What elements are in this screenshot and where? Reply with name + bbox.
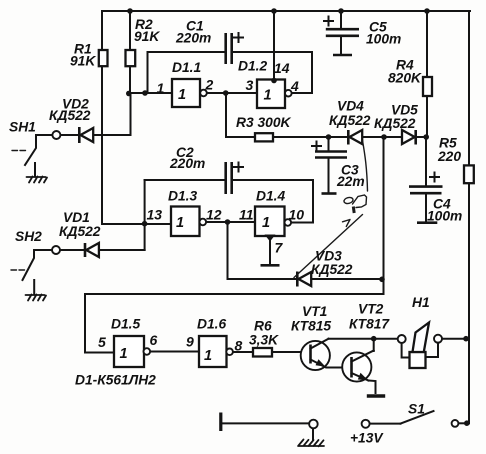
svg-text:91K: 91K: [70, 54, 96, 69]
wire C1 right to D1.2 pin 4: [232, 52, 312, 93]
wire D1.4 pin 7 stem: [269, 238, 271, 265]
wire node VD4/VD5 down to VD3 and to D1.5 input: [85, 137, 384, 353]
svg-text:5: 5: [98, 334, 106, 350]
svg-text:12: 12: [206, 207, 222, 223]
wire H1 right terminal to rail: [442, 338, 469, 340]
terminal +13V: [362, 420, 370, 428]
svg-text:820K: 820K: [388, 71, 422, 86]
svg-text:SH2: SH2: [15, 229, 42, 244]
svg-text:КД522: КД522: [311, 262, 353, 277]
svg-text:1: 1: [120, 346, 128, 362]
wire VT2 collector riser: [373, 339, 375, 351]
svg-text:D1.3: D1.3: [168, 189, 197, 204]
resistor R3: [255, 133, 273, 141]
svg-text:VT2: VT2: [358, 302, 384, 317]
wire +13V to S1 lever: [370, 423, 401, 425]
wire D1.5 out to D1.6 in: [150, 351, 199, 353]
svg-text:VD1: VD1: [63, 210, 90, 225]
wire R6 to VT1 base: [272, 351, 311, 353]
svg-text:220: 220: [437, 149, 461, 164]
wire C1 feedback loop left riser: [148, 52, 226, 93]
capacitor C2: [226, 162, 243, 194]
ground at VT2 emitter: [367, 394, 385, 397]
wire S1 contact to rail: [458, 422, 469, 424]
svg-text:100m: 100m: [427, 209, 462, 224]
wire SH1 lever arm: [25, 135, 53, 165]
svg-text:3,3K: 3,3K: [249, 333, 279, 348]
wire top supply rail: [102, 10, 470, 12]
svg-text:8: 8: [235, 338, 243, 354]
svg-text:22m: 22m: [336, 174, 365, 189]
svg-text:КД522: КД522: [329, 113, 371, 128]
wire VD1 to riser: [99, 249, 145, 251]
gate D1.5: [114, 336, 150, 367]
svg-text:13: 13: [147, 207, 163, 223]
svg-text:D1.4: D1.4: [256, 189, 285, 204]
wire SH1 contact to VD2: [61, 134, 80, 136]
svg-text:7: 7: [275, 240, 284, 256]
gate D1.6: [199, 336, 233, 367]
wire 0V common line: [221, 422, 309, 424]
svg-text:100m: 100m: [366, 32, 401, 47]
buzzer H1: [398, 323, 442, 369]
svg-text:1: 1: [264, 88, 272, 104]
svg-text:1: 1: [178, 87, 186, 103]
gate D1.3: [171, 207, 206, 237]
wire D1.3 out to D1.4 pin 11: [206, 221, 255, 223]
svg-text:D1-К561ЛН2: D1-К561ЛН2: [75, 373, 156, 388]
wire D1.3 output down to VD3: [228, 222, 298, 279]
switch SH2 dashes: [11, 269, 25, 271]
svg-text:3: 3: [246, 77, 254, 93]
annotation pencil arrow to VD3: [294, 215, 363, 278]
svg-text:D1.5: D1.5: [111, 317, 140, 332]
wire pin 1 input of D1.1: [128, 92, 172, 94]
wire C2 left plate lead: [145, 179, 225, 181]
svg-text:220m: 220m: [169, 156, 205, 171]
svg-text:10: 10: [289, 207, 305, 223]
svg-text:R3 300K: R3 300K: [236, 115, 291, 130]
ground at SH2: [26, 280, 47, 301]
wire D1.6 out to R6: [233, 351, 254, 353]
svg-text:D1.2: D1.2: [238, 59, 267, 74]
wire C2 loop riser and VD1 line: [144, 180, 146, 250]
wire R4 column: [426, 11, 428, 137]
diode VD4 КД522: [348, 130, 362, 145]
gate D1.2: [257, 80, 292, 109]
svg-text:11: 11: [239, 207, 254, 223]
wire C4 stem: [425, 137, 427, 185]
switch S1 contact circle: [452, 420, 459, 427]
wire VD3 to drop node: [312, 278, 384, 280]
resistor R4: [423, 77, 432, 96]
wire R2 column: [129, 11, 131, 94]
svg-text:КД522: КД522: [59, 224, 101, 239]
svg-text:91K: 91K: [134, 29, 160, 44]
junction dots: [127, 8, 133, 14]
wire D1.2 pin 14 to rail: [273, 11, 275, 79]
gate D1.1: [172, 79, 207, 107]
resistor R6: [253, 348, 272, 357]
svg-text:КД522: КД522: [374, 116, 416, 131]
switch SH1 contact circle: [52, 131, 60, 139]
svg-text:6: 6: [150, 332, 158, 348]
ground at 0V terminal: [298, 429, 324, 447]
wire VD2 to pin1 node riser: [93, 94, 131, 135]
svg-text:VT1: VT1: [302, 304, 327, 319]
svg-text:9: 9: [186, 334, 194, 350]
diode VD3 КД522: [297, 272, 311, 287]
capacitor C1: [226, 33, 243, 64]
wire D1.1 out to D1.2 pin 3: [207, 92, 257, 94]
svg-text:КТ815: КТ815: [291, 319, 331, 334]
capacitor C3: [312, 137, 347, 194]
svg-text:SH1: SH1: [9, 120, 36, 135]
resistor R5: [464, 165, 474, 183]
svg-text:VD4: VD4: [337, 99, 364, 114]
gate D1.4 pin 7 triangle: [265, 235, 276, 242]
transistor VT2 КТ817: [342, 351, 374, 382]
wire S1 lever arm: [401, 411, 434, 424]
resistor R1: [99, 50, 108, 66]
svg-text:14: 14: [274, 60, 290, 76]
svg-text:КТ817: КТ817: [349, 317, 390, 332]
annotation pencil mark (question squiggle): [343, 141, 367, 214]
svg-text:D1.6: D1.6: [197, 317, 226, 332]
svg-text:КД522: КД522: [49, 108, 91, 123]
svg-text:2: 2: [205, 77, 214, 93]
ground at SH1: [27, 163, 48, 183]
wire right rail (to S1): [468, 11, 470, 423]
wire C2 right to D1.4 pin 10: [232, 180, 313, 223]
svg-text:4: 4: [290, 78, 299, 94]
svg-text:1: 1: [204, 348, 212, 364]
wire VT2 emitter to ground: [369, 381, 376, 394]
diode VD1 КД522: [85, 243, 99, 257]
wire VT1/VT2 collectors to H1: [329, 338, 399, 340]
0V terminal circle: [309, 420, 318, 429]
diode VD5 КД522: [402, 130, 416, 145]
svg-text:1: 1: [157, 80, 165, 96]
svg-text:220m: 220m: [175, 31, 211, 46]
wire VD5 to R4/C4 node: [417, 136, 427, 138]
wire R3 branch from pin2/3 node: [226, 93, 255, 137]
svg-text:H1: H1: [412, 295, 430, 310]
wire VD4 to VD5 node: [362, 136, 404, 138]
wire SH2 contact to VD1: [60, 249, 84, 251]
svg-text:+13V: +13V: [350, 431, 384, 446]
capacitor C4: [409, 173, 443, 223]
wire SH2 lever arm: [23, 250, 53, 280]
capacitor C5: [324, 11, 359, 55]
resistor R2: [126, 50, 136, 66]
svg-text:1: 1: [262, 215, 270, 231]
svg-text:1: 1: [176, 215, 184, 231]
svg-text:S1: S1: [408, 402, 425, 417]
gate D1.4: [255, 207, 291, 237]
gate D1.4 pin 7 ground bar: [261, 264, 280, 267]
svg-text:D1.1: D1.1: [172, 60, 201, 75]
wire left rail (R1 column down to pin 13): [102, 11, 171, 224]
diode VD2 КД522: [79, 127, 93, 143]
switch SH1 dashes: [12, 150, 26, 152]
switch SH2 contact circle: [52, 246, 60, 254]
transistor VT1 КТ815: [301, 339, 352, 370]
wire R3 to VD4: [273, 136, 348, 138]
0V terminal bar: [219, 413, 222, 432]
svg-text:R6: R6: [254, 319, 272, 334]
